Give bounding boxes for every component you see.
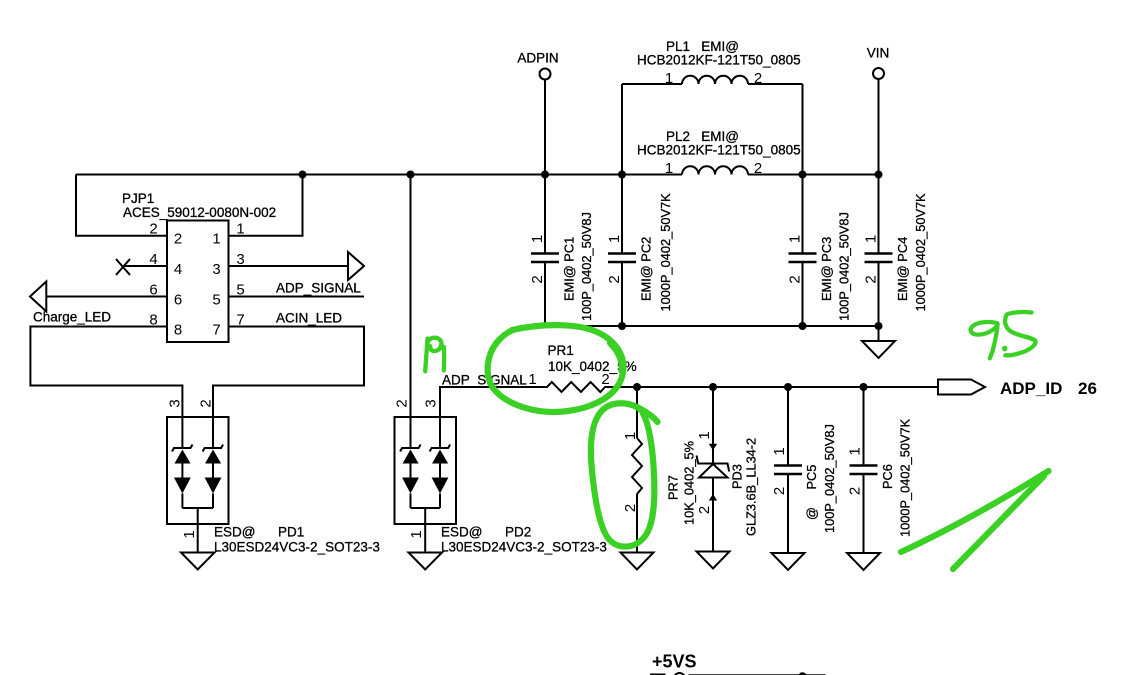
annotation green tail PR7 [637, 407, 658, 422]
port arrow right pin3 [348, 252, 364, 280]
svg-text:3: 3 [167, 399, 184, 407]
resistor PR1 [531, 382, 637, 392]
ground under PC5 [772, 553, 805, 570]
svg-text:2: 2 [149, 221, 157, 238]
svg-text:1: 1 [622, 432, 639, 440]
wire pin2 to bus [76, 175, 167, 236]
svg-text:EMI@ PC3: EMI@ PC3 [819, 237, 834, 301]
junction dots on bus [299, 171, 307, 179]
svg-text:ADP_SIGNAL: ADP_SIGNAL [276, 281, 361, 296]
svg-text:2: 2 [606, 275, 623, 283]
svg-text:6: 6 [174, 292, 182, 309]
svg-text:1000P_0402_50V7K: 1000P_0402_50V7K [913, 193, 928, 312]
svg-text:10K_0402_5%: 10K_0402_5% [682, 441, 697, 525]
svg-text:VIN: VIN [867, 46, 890, 61]
svg-text:ESD@: ESD@ [441, 525, 482, 540]
ground under PD3 [697, 552, 730, 569]
capacitor PC5 [774, 387, 802, 553]
svg-text:2: 2 [601, 371, 609, 388]
svg-text:PR1: PR1 [548, 343, 574, 358]
svg-text:7: 7 [212, 322, 220, 339]
svg-text:1: 1 [787, 235, 804, 243]
svg-text:Charge_LED: Charge_LED [33, 310, 111, 325]
wire PD2 pin2 from bus [410, 175, 412, 449]
PD1 right zener pair [203, 445, 224, 509]
svg-text:GLZ3.6B_LL34-2: GLZ3.6B_LL34-2 [744, 438, 759, 536]
svg-text:26: 26 [1078, 379, 1097, 398]
wire bottom edge left stub [650, 674, 666, 675]
resistor PR7 [632, 387, 642, 553]
svg-text:100P_0402_50V8J: 100P_0402_50V8J [822, 424, 837, 533]
node ADPIN port circle [540, 69, 551, 80]
svg-text:1000P_0402_50V7K: 1000P_0402_50V7K [658, 193, 673, 312]
PD1 bottom join and pin 1 [182, 508, 213, 553]
svg-text:EMI@ PC2: EMI@ PC2 [639, 237, 654, 301]
svg-text:2: 2 [771, 487, 788, 495]
svg-text:2: 2 [863, 275, 880, 283]
PD2 bottom join and pin 1 [411, 508, 441, 553]
wire pin7 ACIN_LED down to PD1 [213, 327, 364, 449]
capacitor PC6 [850, 387, 878, 553]
svg-text:ACIN_LED: ACIN_LED [276, 311, 342, 326]
annotation green circle around PR7 [591, 403, 654, 546]
capacitor PC4 [865, 254, 893, 327]
svg-text:2: 2 [198, 399, 215, 407]
svg-text:2: 2 [847, 487, 864, 495]
svg-text:1000P_0402_50V7K: 1000P_0402_50V7K [898, 418, 913, 537]
svg-text:100P_0402_50V8J: 100P_0402_50V8J [579, 212, 594, 321]
wire lower bus [545, 325, 879, 327]
junction dots lower bus [618, 322, 626, 330]
svg-text:2: 2 [622, 504, 639, 512]
wire VIN vertical [878, 79, 880, 253]
wire ADPIN vertical [544, 80, 546, 254]
svg-text:1: 1 [528, 371, 536, 388]
annotation green check mark [901, 471, 1049, 552]
junction dots ADP_ID net [633, 383, 641, 391]
capacitor PC3 [789, 254, 817, 327]
ESD diode PD1 body [167, 417, 229, 524]
wire PL1 right vertical [802, 84, 804, 253]
svg-text:1: 1 [606, 235, 623, 243]
wire pin8 Charge_LED down to PD1 [30, 327, 182, 449]
ground under PD2 [409, 553, 443, 570]
svg-text:3: 3 [423, 399, 440, 407]
ground under PR7 [621, 553, 654, 570]
ESD diode PD2 body [395, 417, 457, 524]
annotation handwritten 19 [425, 339, 427, 372]
PD1 left zener pair [172, 445, 193, 509]
capacitor PC2 [608, 254, 636, 327]
inductor PL1 [622, 76, 803, 84]
svg-text:ADP_SIGNAL: ADP_SIGNAL [442, 373, 527, 388]
svg-text:PC5: PC5 [804, 465, 819, 490]
ground under PC6 [847, 553, 880, 570]
svg-text:EMI@ PC1: EMI@ PC1 [562, 237, 577, 301]
svg-text:100P_0402_50V8J: 100P_0402_50V8J [837, 212, 852, 321]
svg-text:HCB2012KF-121T50_0805: HCB2012KF-121T50_0805 [637, 53, 801, 68]
no-connect X [116, 259, 130, 275]
svg-text:1: 1 [847, 447, 864, 455]
ground under PD1 [181, 553, 215, 570]
svg-text:1: 1 [408, 530, 425, 538]
junction dot bottom edge [798, 672, 806, 675]
svg-text:PC6: PC6 [880, 464, 895, 489]
svg-text:ACES_59012-0080N-002: ACES_59012-0080N-002 [123, 205, 276, 220]
svg-text:ADP_ID: ADP_ID [1000, 379, 1062, 398]
svg-text:1: 1 [696, 431, 713, 439]
annotation handwritten 9.5 [971, 322, 998, 358]
wire pin1 to bus [229, 175, 303, 236]
wire main bus [76, 174, 682, 176]
svg-text:1: 1 [212, 231, 220, 248]
connector PJP1 body [167, 221, 229, 343]
node VIN port circle [873, 68, 884, 79]
annotation green circle around PR1 [488, 325, 624, 412]
svg-text:2: 2 [174, 231, 182, 248]
svg-text:3: 3 [212, 261, 220, 278]
svg-text:@: @ [804, 507, 819, 520]
wire ADP_ID net [637, 386, 938, 388]
svg-text:2: 2 [787, 275, 804, 283]
svg-text:ESD@: ESD@ [214, 525, 255, 540]
svg-text:HCB2012KF-121T50_0805: HCB2012KF-121T50_0805 [637, 143, 801, 158]
port ADP_ID symbol [938, 380, 985, 395]
wire main bus right [748, 174, 879, 176]
wire pin4 with no-connect X [123, 265, 167, 267]
svg-text:1: 1 [863, 235, 880, 243]
PD2 left zener pair [400, 445, 421, 509]
svg-text:PD1: PD1 [278, 525, 304, 540]
svg-text:2: 2 [394, 399, 411, 407]
wire pin5 ADP_SIGNAL [229, 296, 365, 298]
svg-text:1: 1 [529, 235, 546, 243]
wire pin3 [229, 265, 349, 267]
svg-text:1: 1 [236, 221, 244, 238]
svg-text:1: 1 [771, 447, 788, 455]
power +5VS port circle (cut at bottom) [674, 673, 685, 675]
svg-text:L30ESD24VC3-2_SOT23-3: L30ESD24VC3-2_SOT23-3 [214, 540, 380, 555]
svg-text:2: 2 [696, 506, 713, 514]
svg-text:PR7: PR7 [666, 475, 681, 500]
wire ADP_SIGNAL_1 from PD2 [440, 387, 531, 448]
ground under PC4 bus [862, 326, 895, 358]
svg-text:+5VS: +5VS [652, 652, 697, 672]
PD2 right zener pair [430, 445, 451, 509]
svg-text:PD3: PD3 [730, 464, 745, 489]
svg-text:8: 8 [174, 322, 182, 339]
wire pin6 [46, 296, 167, 298]
inductor PL2 [682, 166, 748, 174]
svg-text:EMI@ PC4: EMI@ PC4 [895, 237, 910, 301]
svg-text:ADPIN: ADPIN [517, 51, 558, 66]
svg-text:4: 4 [174, 261, 182, 278]
wire bottom edge [689, 674, 826, 675]
diode PD3 [697, 387, 730, 552]
svg-text:2: 2 [529, 275, 546, 283]
wire PL1 left vertical [621, 84, 623, 253]
svg-text:1: 1 [181, 530, 198, 538]
svg-text:PJP1: PJP1 [122, 191, 154, 206]
capacitor PC1 [531, 254, 559, 327]
svg-text:PD2: PD2 [505, 525, 531, 540]
annotation green tail PR1 [610, 343, 622, 371]
svg-text:L30ESD24VC3-2_SOT23-3: L30ESD24VC3-2_SOT23-3 [441, 540, 607, 555]
port arrow left pin6 [30, 282, 46, 312]
svg-text:5: 5 [212, 292, 220, 309]
